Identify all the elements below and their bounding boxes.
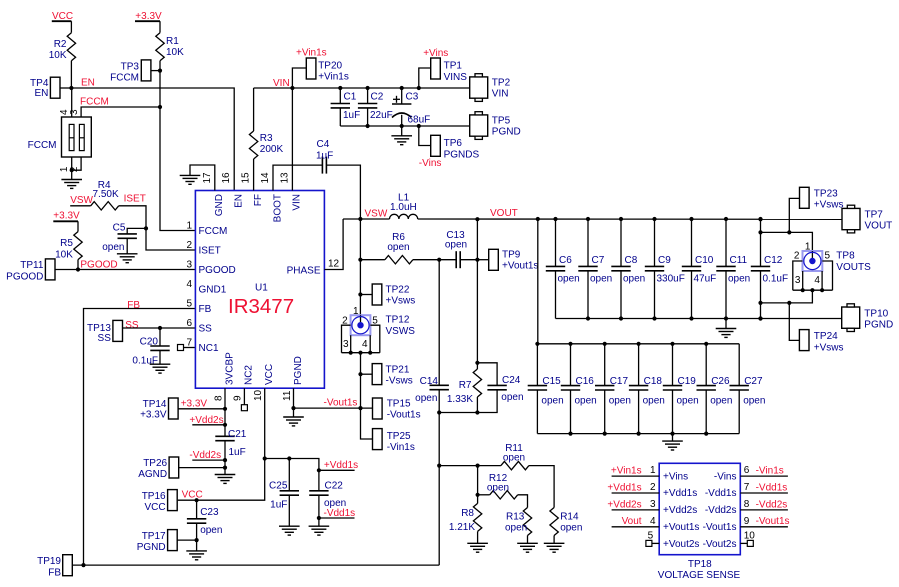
test point TP5 (470, 112, 521, 140)
test point TP20 (292, 48, 348, 89)
svg-text:14: 14 (260, 172, 271, 184)
svg-text:SS: SS (98, 333, 112, 344)
wire SS net (123, 327, 196, 329)
capacitor C26 (697, 344, 733, 434)
test point TP15 (373, 398, 421, 420)
wire (151, 70, 160, 72)
svg-text:3: 3 (186, 260, 192, 271)
svg-text:7: 7 (186, 338, 192, 349)
wire +Vsws sense line (761, 232, 813, 251)
svg-text:2: 2 (650, 482, 656, 493)
svg-text:FCCM: FCCM (80, 97, 109, 108)
wire VOUT net (418, 208, 842, 219)
svg-text:AGND: AGND (138, 469, 167, 480)
ground (117, 254, 138, 263)
svg-text:open: open (560, 523, 582, 534)
wire C4 to VSW (326, 165, 360, 219)
svg-text:VSW: VSW (70, 195, 93, 206)
svg-text:330uF: 330uF (657, 274, 685, 285)
svg-text:-Vsws: -Vsws (386, 376, 413, 387)
svg-text:-Vdd2s: -Vdd2s (756, 499, 788, 510)
no-connect square NC1 pin 7 (178, 345, 196, 351)
svg-text:C24: C24 (502, 375, 521, 386)
svg-text:+Vdd1s: +Vdd1s (607, 482, 641, 493)
node TP8 pin3 (801, 288, 805, 292)
capacitor C3 electrolytic (392, 88, 430, 126)
svg-text:-Vins: -Vins (419, 158, 442, 169)
svg-text:R2: R2 (54, 39, 67, 50)
net label +Vdd1s (319, 460, 358, 471)
svg-text:C27: C27 (744, 376, 763, 387)
svg-text:-Vout1s: -Vout1s (756, 516, 790, 527)
svg-text:13: 13 (279, 172, 290, 184)
wire pin 10 VCC column (178, 388, 265, 500)
svg-text:+Vin1s: +Vin1s (296, 48, 327, 59)
svg-text:-Vdd2s: -Vdd2s (705, 505, 737, 516)
test point TP9 (477, 249, 538, 271)
test point TP6 (419, 126, 480, 169)
capacitor C9 (645, 219, 685, 319)
node VOUT C7 (586, 217, 590, 221)
svg-text:VOLTAGE SENSE: VOLTAGE SENSE (658, 570, 741, 581)
wire (70, 205, 91, 207)
node VOUT right (758, 217, 762, 221)
svg-text:3: 3 (795, 275, 801, 286)
pin 9 -Vout1s of TP18 (703, 516, 790, 533)
node R8 top (476, 464, 480, 468)
capacitor C5 (102, 223, 137, 254)
svg-text:PHASE: PHASE (287, 265, 321, 276)
pin 3 PGOOD of U1 (186, 260, 235, 276)
node lower bottom C26 (704, 432, 708, 436)
svg-text:TP19: TP19 (37, 556, 61, 567)
pin 2 of switch (69, 157, 81, 172)
svg-text:U1: U1 (255, 283, 268, 294)
svg-text:C5: C5 (113, 223, 126, 234)
pin 17 GND of U1 (202, 172, 225, 216)
test point TP24 (789, 303, 843, 354)
node C21 top (223, 423, 227, 427)
net label -Vdd1s (319, 508, 355, 519)
pin 9 NC2 of U1 (233, 365, 255, 401)
svg-text:EN: EN (234, 194, 245, 208)
svg-text:open: open (728, 274, 750, 285)
svg-text:FCCM: FCCM (110, 73, 139, 84)
svg-text:4: 4 (362, 339, 368, 350)
svg-text:3: 3 (69, 109, 80, 115)
node C21 bottom (223, 458, 227, 462)
svg-text:TP23: TP23 (814, 189, 838, 200)
node C12 col shield (758, 301, 762, 305)
svg-text:PGOOD: PGOOD (80, 260, 117, 271)
svg-text:open: open (575, 396, 597, 407)
svg-text:1uF: 1uF (316, 151, 333, 162)
svg-text:C12: C12 (764, 255, 783, 266)
ground (150, 364, 171, 373)
wire (71, 170, 73, 179)
test point TP11 (6, 259, 55, 283)
net label VSW (70, 195, 93, 206)
resistor R13 (505, 508, 532, 544)
svg-text:C3: C3 (406, 92, 419, 103)
node TP6 junction (417, 124, 421, 128)
wire (159, 350, 161, 364)
svg-text:TP18: TP18 (688, 559, 712, 570)
svg-text:VSW: VSW (365, 209, 388, 220)
svg-text:GND: GND (214, 194, 225, 216)
wire FB net (84, 309, 196, 566)
svg-text:6: 6 (744, 465, 750, 476)
svg-text:GND1: GND1 (199, 285, 227, 296)
label TP8 VOUTS (836, 251, 871, 274)
svg-text:VIN: VIN (292, 194, 303, 211)
svg-text:+3.3V: +3.3V (181, 398, 208, 409)
node VOUT C8 (619, 217, 623, 221)
node switch ground junction (70, 168, 74, 172)
svg-text:47uF: 47uF (694, 274, 717, 285)
svg-text:C2: C2 (371, 92, 384, 103)
svg-text:TP7: TP7 (865, 210, 884, 221)
test point TP22 (360, 284, 415, 307)
test point TP10 (842, 304, 894, 332)
node TP22 junction (358, 292, 362, 296)
node C13 left (437, 258, 441, 262)
node FB/C14 bottom (437, 410, 441, 414)
node rail C3 gnd (400, 124, 404, 128)
svg-text:open: open (590, 274, 612, 285)
wire pin13 (291, 88, 293, 191)
svg-text:+Vdd1s: +Vdd1s (663, 488, 697, 499)
svg-text:C16: C16 (576, 376, 595, 387)
svg-text:200K: 200K (260, 144, 284, 155)
svg-text:FB: FB (127, 300, 140, 311)
test point TP25 (373, 429, 415, 453)
pin 1 of TP8 (805, 242, 811, 253)
svg-text:C26: C26 (711, 376, 730, 387)
svg-text:ISET: ISET (124, 194, 146, 205)
svg-text:4: 4 (814, 275, 820, 286)
svg-text:TP15: TP15 (387, 398, 411, 409)
net label FB (127, 300, 140, 311)
wire (160, 61, 195, 231)
svg-text:16: 16 (221, 172, 232, 184)
wire (672, 434, 674, 442)
power flag +3.3V at R5 (53, 211, 80, 222)
resistor R7 (447, 363, 482, 413)
ground at R8 (467, 543, 488, 552)
node TP21 junction (358, 372, 362, 376)
pin 4 of TP12 (362, 335, 370, 353)
svg-text:PGND: PGND (137, 542, 166, 553)
svg-text:TP2: TP2 (492, 78, 511, 89)
test point TP7 (842, 205, 892, 233)
svg-text:C11: C11 (730, 255, 748, 266)
svg-text:TP3: TP3 (121, 62, 140, 73)
wire (725, 319, 727, 329)
svg-text:TP8: TP8 (836, 251, 855, 262)
svg-text:1: 1 (650, 465, 656, 476)
svg-text:PGOOD: PGOOD (199, 265, 236, 276)
svg-text:1: 1 (186, 221, 192, 232)
svg-text:VCC: VCC (182, 490, 203, 501)
svg-text:NC2: NC2 (244, 365, 255, 385)
capacitor C24 bracket (477, 363, 523, 413)
node R7 bottom (475, 410, 479, 414)
pin 6 -Vins of TP18 (714, 465, 788, 482)
svg-text:FF: FF (253, 194, 264, 206)
svg-text:FB: FB (199, 304, 212, 315)
node VOUT C12 (758, 217, 762, 221)
capacitor C17 (595, 344, 631, 434)
pin 4 +Vout1s of TP18 (612, 516, 700, 533)
node VOUT C6 (553, 217, 557, 221)
node rail C12/TP10 (758, 316, 762, 320)
capacitor C15 (528, 344, 564, 434)
pin 5 +Vout2s of TP18 (646, 530, 700, 550)
svg-text:9: 9 (233, 395, 244, 401)
svg-text:C25: C25 (269, 481, 288, 492)
test point TP21 (361, 364, 413, 387)
svg-text:TP10: TP10 (864, 309, 888, 320)
svg-text:+Vsws: +Vsws (386, 296, 416, 307)
wire R7 bottom line (439, 412, 477, 414)
svg-text:VOUT: VOUT (865, 221, 893, 232)
wire pin17 to ground (190, 165, 215, 191)
svg-text:TP6: TP6 (444, 138, 463, 149)
test point TP3 (110, 60, 151, 84)
wire (476, 219, 478, 363)
svg-text:R1: R1 (166, 36, 179, 47)
node C25 top (287, 456, 291, 460)
svg-text:5: 5 (825, 251, 831, 262)
test point TP4 (30, 77, 60, 99)
svg-text:BOOT: BOOT (272, 194, 283, 222)
pin 13 VIN of U1 (279, 172, 302, 211)
svg-text:open: open (677, 396, 699, 407)
wire FB bottom (72, 564, 439, 566)
svg-text:1.0uH: 1.0uH (390, 202, 417, 213)
svg-text:TP11: TP11 (20, 260, 44, 271)
power flag +3.3V (135, 11, 162, 22)
node TP12 pin4 (368, 351, 372, 355)
wire (159, 21, 161, 33)
svg-text:0.1uF: 0.1uF (763, 274, 789, 285)
capacitor C7 (578, 219, 612, 319)
svg-text:+Vsws: +Vsws (814, 343, 844, 354)
svg-text:C20: C20 (140, 337, 159, 348)
node lower bottom C16 (568, 432, 572, 436)
svg-text:C21: C21 (228, 429, 247, 440)
svg-text:C15: C15 (542, 376, 561, 387)
svg-text:+Vout1s: +Vout1s (502, 261, 538, 272)
pin 4 GND1 of U1 (186, 279, 226, 295)
wire VSW to R6 (359, 219, 361, 315)
svg-text:-Vdd2s: -Vdd2s (189, 450, 221, 461)
svg-text:TP14: TP14 (143, 399, 167, 410)
net label -Vout1s (324, 398, 358, 409)
svg-text:6: 6 (186, 318, 192, 329)
svg-text:-Vdd1s: -Vdd1s (705, 488, 737, 499)
wire (196, 540, 198, 551)
test point TP19 (37, 555, 72, 579)
capacitor C4 (316, 139, 333, 174)
wire (360, 259, 385, 261)
svg-text:PGND: PGND (293, 356, 304, 385)
pin 7 -Vdd1s of TP18 (705, 482, 788, 499)
wire EN net (71, 88, 234, 191)
svg-text:-Vout2s: -Vout2s (703, 539, 737, 550)
wire (70, 61, 72, 88)
wire TP8 bottom bracket (793, 289, 833, 291)
node TP19/FB (81, 563, 85, 567)
ground at C21 (215, 475, 236, 484)
node FCCM junction at TP3 (158, 69, 162, 73)
node C2 top (366, 86, 370, 90)
svg-text:7: 7 (744, 482, 750, 493)
svg-text:5: 5 (186, 299, 192, 310)
svg-text:open: open (541, 396, 563, 407)
svg-text:R7: R7 (459, 380, 472, 391)
node rail C8 (619, 316, 623, 320)
node R12 junction (476, 493, 480, 497)
svg-text:VSWS: VSWS (386, 326, 416, 337)
pin 5 of TP8 (822, 251, 832, 291)
svg-text:VCC: VCC (264, 364, 275, 385)
svg-text:open: open (445, 240, 467, 251)
svg-text:Vout: Vout (622, 516, 642, 527)
capacitor C22 (309, 470, 346, 526)
svg-text:+Vins: +Vins (423, 48, 448, 59)
node PGOOD/R5 (76, 267, 80, 271)
wire C13 left down to C14 (438, 260, 440, 386)
ground at pin 11 (283, 417, 304, 426)
pin 6 SS of U1 (186, 318, 212, 334)
coax test point TP12 (351, 315, 371, 335)
svg-text:+Vin1s: +Vin1s (318, 72, 349, 83)
pin 2 of TP12 (342, 316, 351, 353)
svg-text:-Vin1s: -Vin1s (387, 442, 415, 453)
net label SS (125, 320, 139, 331)
svg-text:FB: FB (48, 568, 61, 579)
node EN (69, 78, 95, 91)
test point TP16 (142, 490, 178, 513)
svg-text:+Vout1s: +Vout1s (663, 522, 699, 533)
svg-text:R5: R5 (60, 238, 73, 249)
node VCC/C25 branch (263, 456, 267, 460)
node TP23 junction (787, 230, 791, 234)
wire (253, 159, 255, 191)
node TP8 pin4 (820, 288, 824, 292)
pin 5 of TP12 (370, 316, 379, 353)
capacitor C14 (415, 376, 449, 404)
resistor R4 (91, 180, 119, 210)
wire FCCM net (80, 97, 160, 118)
svg-text:C9: C9 (658, 255, 671, 266)
svg-text:VINS: VINS (444, 72, 468, 83)
capacitor C16 (561, 344, 597, 434)
svg-text:+Vout2s: +Vout2s (663, 539, 699, 550)
inductor L1 (390, 193, 418, 220)
node lower top C17 (603, 342, 607, 346)
ground at pin 17 (180, 175, 201, 184)
pin 3 of TP12 (343, 335, 351, 353)
wire VOUT down to lower bank (537, 219, 539, 344)
svg-text:TP12: TP12 (386, 315, 410, 326)
node VOUT C10 (689, 217, 693, 221)
svg-text:TP21: TP21 (386, 365, 410, 376)
wire lower bank bottom rail (537, 433, 739, 435)
node lower bottom C18 (637, 432, 641, 436)
svg-text:11: 11 (282, 390, 293, 401)
node rail C11 (724, 316, 728, 320)
node FB divider (437, 464, 441, 468)
power flag VCC (52, 11, 73, 22)
ground at C23 (186, 551, 207, 560)
svg-text:10: 10 (253, 389, 264, 401)
node C22 top (317, 468, 321, 472)
svg-text:NC1: NC1 (199, 343, 219, 354)
no-connect square NC2 pin 9 (241, 388, 247, 411)
ground lower rail (662, 441, 683, 450)
wire (126, 238, 128, 254)
pin 1 +Vins of TP18 (611, 465, 688, 482)
svg-text:C23: C23 (200, 507, 219, 518)
wire to C25 C22 (265, 459, 319, 471)
svg-text:1.33K: 1.33K (447, 394, 473, 405)
wire (460, 259, 477, 261)
pin 3 +Vdd2s of TP18 (607, 499, 697, 516)
capacitor C20 (132, 337, 169, 367)
svg-text:12: 12 (328, 259, 340, 270)
pin 16 EN of U1 (221, 172, 244, 208)
svg-text:open: open (623, 274, 645, 285)
capacitor C19 (663, 344, 699, 434)
pin 7 NC1 of U1 (186, 338, 219, 354)
wire pin14 BOOT to C4 (273, 165, 322, 190)
svg-text:7.50K: 7.50K (93, 189, 119, 200)
node pin8/TP14 (223, 407, 227, 411)
node C1 top (338, 86, 342, 90)
pin 3 of TP8 (795, 271, 803, 290)
wire R8 node down (477, 466, 479, 495)
svg-text:17: 17 (202, 172, 213, 184)
node TP26 junction (223, 466, 227, 470)
svg-text:8: 8 (744, 499, 750, 510)
capacitor C21 (215, 425, 246, 468)
svg-text:R13: R13 (506, 512, 525, 523)
node SS/C20 (158, 326, 162, 330)
capacitor C2 (358, 88, 393, 126)
node VOUT/C13 column (475, 217, 479, 221)
wire (70, 21, 72, 33)
svg-text:4: 4 (186, 279, 192, 290)
node TP8 center (810, 288, 814, 292)
pin 1 FCCM of U1 (186, 221, 227, 237)
pin 4 of TP8 (814, 271, 822, 290)
svg-text:10: 10 (744, 530, 756, 541)
wire VIN to R3 (253, 88, 255, 131)
resistor R2 (49, 33, 76, 61)
ground upper rail (716, 329, 737, 338)
svg-text:2: 2 (794, 251, 800, 262)
svg-text:open: open (102, 242, 124, 253)
capacitor C1 (331, 88, 361, 126)
svg-text:open: open (609, 396, 631, 407)
resistor R1 (156, 33, 184, 61)
svg-text:4: 4 (650, 516, 656, 527)
test point TP14 (140, 398, 225, 421)
node lower bank top (535, 342, 539, 346)
